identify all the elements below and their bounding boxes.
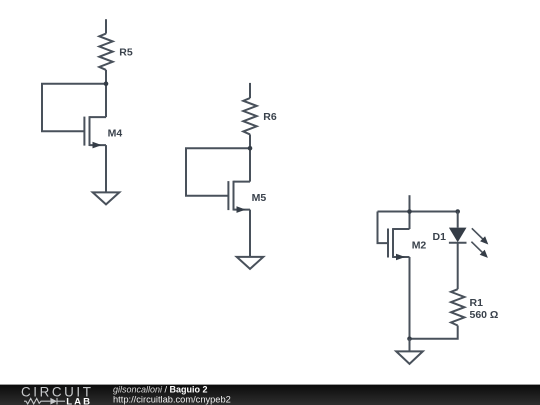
wire gate loop M5 [186,148,250,196]
LED D1 [449,212,488,290]
node A (R5/M4 drain/gate) [104,81,109,86]
svg-text:560 Ω: 560 Ω [470,309,499,321]
wire top rail M2/D1 [378,211,458,213]
wire gate loop M4 [42,84,106,132]
node D (top rail / D1 anode) [455,209,460,214]
transistor M4 [84,84,106,193]
ground (M5 source) [237,257,264,269]
svg-text:M4: M4 [108,127,123,139]
node E (M2 source / bottom rail) [407,336,412,341]
node B (R6/M5 drain/gate) [248,146,253,151]
svg-text:M2: M2 [412,240,427,252]
svg-text:M5: M5 [252,192,267,204]
transistor M5 [228,148,250,257]
node C (top rail / M2 drain) [407,209,412,214]
svg-text:D1: D1 [433,231,447,243]
wire gate loop M2 [378,212,389,244]
wire stub above R6 [249,83,251,98]
svg-text:http://circuitlab.com/cnypeb2: http://circuitlab.com/cnypeb2 [113,394,231,404]
resistor R1 [451,289,464,325]
svg-text:gilsoncalloni / Baguio 2: gilsoncalloni / Baguio 2 [113,384,208,394]
wire stub above M2 drain [409,195,411,211]
svg-text:R6: R6 [263,111,277,123]
svg-text:R5: R5 [119,47,133,59]
ground (M4 source) [93,192,120,204]
svg-text:LAB: LAB [66,396,92,405]
resistor R6 [243,98,256,134]
wire R1 to bottom rail [410,326,458,339]
wire stub above R5 [105,19,107,33]
wire R6 to node [249,134,251,148]
wire to ground [409,339,411,352]
svg-text:R1: R1 [470,297,484,309]
logo schematic line [24,398,65,405]
wire R5 to node [105,70,107,84]
ground (bottom rail) [396,351,423,364]
footer bar [0,385,540,405]
resistor R5 [99,34,112,70]
transistor M2 [388,212,410,339]
